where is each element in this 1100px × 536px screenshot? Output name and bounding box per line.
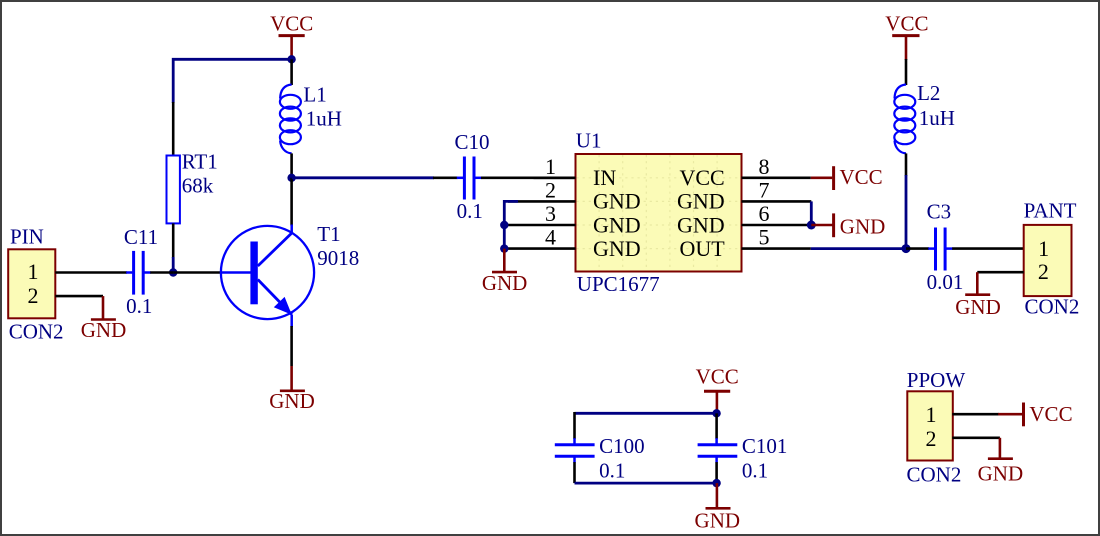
svg-text:9018: 9018 (317, 246, 359, 270)
pin 6 (742, 224, 810, 227)
node RT1/C11/T1 base junction (169, 268, 177, 276)
svg-text:VCC: VCC (270, 12, 313, 36)
svg-text:VCC: VCC (696, 365, 739, 389)
node VCC/RT1 junction (287, 55, 295, 63)
wire U1 pin7 to pin6 (810, 201, 813, 225)
svg-text:2: 2 (1038, 259, 1049, 284)
svg-text:VCC: VCC (840, 165, 883, 189)
capacitor C100 (555, 412, 645, 483)
svg-text:7: 7 (759, 177, 770, 202)
svg-text:1: 1 (28, 259, 39, 284)
svg-text:GND: GND (269, 389, 315, 413)
power port VCC (U1 pin 8, bar style) (811, 165, 883, 190)
svg-text:VCC: VCC (885, 12, 928, 36)
connector PANT (CON2) (1024, 199, 1080, 319)
svg-text:0.01: 0.01 (927, 270, 964, 294)
wire bottom rail C100-C101 (575, 482, 717, 485)
wire RT1 bottom to base node (172, 257, 175, 273)
power port VCC (PPOW, bar style) (998, 402, 1072, 426)
wire top rail C100-C101 (575, 412, 717, 415)
svg-text:C11: C11 (124, 225, 158, 249)
svg-text:6: 6 (759, 201, 770, 226)
capacitor C10 (433, 130, 490, 223)
svg-text:PANT: PANT (1024, 199, 1077, 223)
node GND/C101 bottom junction (712, 479, 720, 487)
power port VCC (decoupling) (696, 365, 739, 414)
svg-text:CON2: CON2 (1025, 295, 1080, 319)
svg-text:RT1: RT1 (182, 150, 218, 174)
svg-text:1: 1 (926, 402, 937, 427)
svg-text:GND: GND (81, 318, 127, 342)
svg-text:T1: T1 (317, 222, 340, 246)
svg-text:GND: GND (593, 212, 641, 237)
svg-text:C101: C101 (742, 434, 788, 458)
svg-text:PPOW: PPOW (907, 368, 966, 392)
svg-text:GND: GND (593, 236, 641, 261)
node pin6/pin7 junction (807, 221, 816, 230)
node L1/C10/T1 collector junction (287, 174, 295, 182)
pin 7 (742, 200, 812, 203)
ground (U1 pins 2-4) (482, 249, 528, 296)
pin 3 (508, 224, 576, 227)
wire PPOW pin1 to VCC (952, 413, 999, 416)
svg-text:CON2: CON2 (9, 320, 64, 344)
pin 8 (742, 177, 811, 180)
svg-text:VCC: VCC (679, 165, 724, 190)
svg-text:L2: L2 (917, 81, 940, 105)
svg-text:1uH: 1uH (919, 106, 955, 130)
svg-text:GND: GND (593, 189, 641, 214)
pin 2 (508, 200, 576, 203)
wire C10 to U1 pin1 (481, 177, 576, 180)
ground (T1 emitter) (269, 366, 315, 413)
resistor RT1 (167, 102, 218, 258)
connector PIN (CON2) (8, 225, 63, 344)
inductor L2 (894, 59, 955, 176)
svg-text:VCC: VCC (1029, 402, 1072, 426)
svg-text:GND: GND (677, 189, 725, 214)
power port VCC (bias, top left) (270, 12, 313, 59)
pin 1 (534, 177, 576, 180)
ground (PIN pin2) (81, 296, 127, 342)
wire U1 pin5 to OUT node (811, 247, 906, 250)
node VCC/C101 top junction (712, 409, 720, 417)
svg-text:GND: GND (978, 462, 1024, 486)
svg-text:0.1: 0.1 (742, 459, 768, 483)
ground (PPOW pin2) (978, 438, 1024, 486)
node pin4 junction (500, 244, 508, 252)
svg-text:1: 1 (545, 154, 556, 179)
ground (U1 pins 6-7, bar style) (811, 213, 885, 238)
svg-text:0.1: 0.1 (457, 199, 483, 223)
svg-text:1: 1 (1038, 236, 1049, 261)
wire PIN pin2 to ground (55, 295, 103, 298)
IC U1 UPC1677 (508, 129, 811, 296)
pin 5 (742, 247, 811, 250)
node L2/C3/OUT junction (902, 244, 911, 253)
capacitor C11 (124, 225, 158, 318)
svg-text:CON2: CON2 (907, 462, 962, 486)
ground (PANT pin2) (955, 272, 1001, 319)
capacitor C3 (906, 200, 963, 294)
svg-text:GND: GND (840, 214, 886, 238)
svg-text:68k: 68k (182, 174, 214, 198)
svg-text:0.1: 0.1 (126, 294, 152, 318)
svg-text:UPC1677: UPC1677 (577, 272, 660, 296)
ground (decoupling) (695, 483, 741, 532)
svg-text:8: 8 (759, 154, 770, 179)
svg-text:2: 2 (28, 283, 39, 308)
inductor L1 (280, 59, 342, 178)
wire VCC node to RT1 top (173, 59, 291, 103)
wire U1 pins 2-4 ground bus (504, 201, 518, 248)
svg-text:GND: GND (677, 212, 725, 237)
wire collector node to C10 (292, 176, 434, 179)
wire C11 to base node (150, 271, 173, 274)
svg-text:L1: L1 (303, 82, 326, 106)
svg-text:U1: U1 (576, 129, 602, 153)
svg-text:C10: C10 (455, 130, 490, 154)
power port VCC (L2, top right) (885, 12, 928, 61)
svg-text:C3: C3 (927, 200, 952, 224)
wire PPOW pin2 to ground (952, 436, 1000, 439)
wire C3 to PANT pin1 (952, 247, 1024, 250)
svg-text:GND: GND (482, 271, 528, 295)
svg-text:0.1: 0.1 (599, 459, 625, 483)
svg-text:IN: IN (593, 165, 616, 190)
transistor T1 (173, 178, 359, 366)
svg-text:1uH: 1uH (306, 106, 342, 130)
wire L2 to OUT node (905, 175, 908, 249)
capacitor C101 (698, 413, 788, 483)
wire PIN pin1 to C11 (55, 271, 127, 274)
svg-text:PIN: PIN (10, 225, 44, 249)
svg-text:OUT: OUT (679, 236, 725, 261)
svg-text:2: 2 (545, 177, 556, 202)
svg-text:C100: C100 (599, 434, 645, 458)
pin 4 (508, 247, 576, 250)
wire PANT pin2 to ground (977, 271, 1023, 274)
node pin3 junction (500, 221, 508, 229)
svg-text:3: 3 (545, 201, 556, 226)
svg-text:GND: GND (695, 509, 741, 533)
svg-text:4: 4 (545, 225, 556, 250)
svg-text:5: 5 (759, 225, 770, 250)
svg-text:GND: GND (955, 295, 1001, 319)
svg-text:2: 2 (926, 426, 937, 451)
connector PPOW (CON2) (907, 368, 966, 486)
